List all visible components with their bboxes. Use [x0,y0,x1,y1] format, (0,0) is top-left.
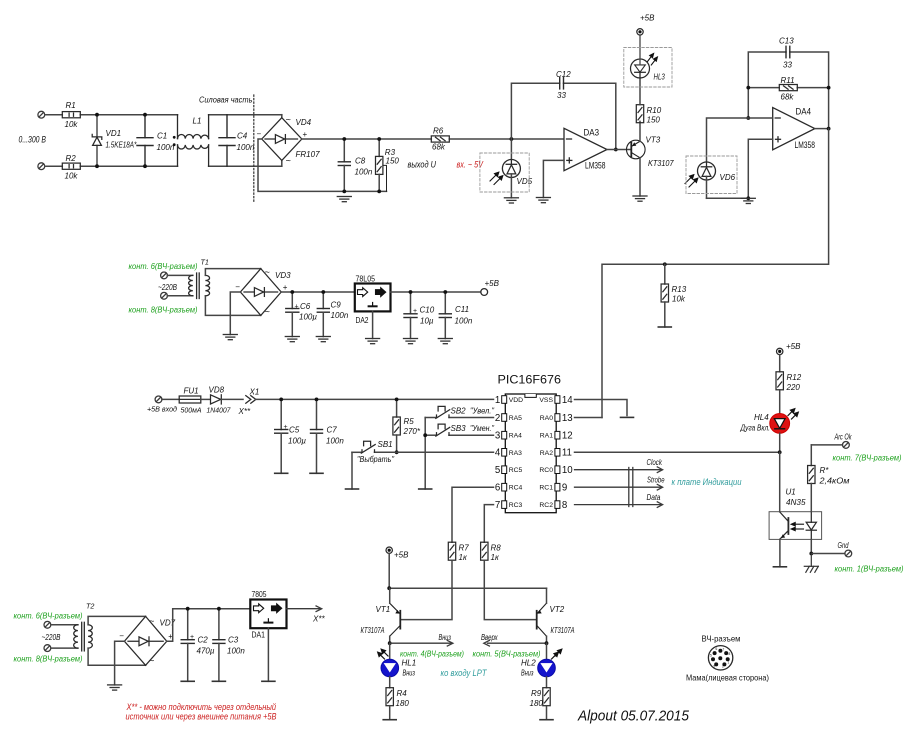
svg-text:Data: Data [647,493,661,502]
svg-text:6: 6 [495,483,500,494]
svg-text:KT3107: KT3107 [648,159,674,168]
ground C11 [438,339,452,344]
svg-text:270*: 270* [403,427,421,436]
wire DA1 ground leg [267,628,269,681]
ground bar C7 [310,472,323,474]
wire pin8 RC2 Data [575,502,663,508]
LED HL3 [631,35,666,105]
svg-text:33: 33 [557,91,566,100]
separator dotted line [253,95,255,203]
svg-text:выход U: выход U [408,160,437,170]
svg-text:R13: R13 [672,285,687,294]
svg-text:100n: 100n [326,437,344,446]
svg-text:R12: R12 [787,373,802,382]
wire VD4 output rail [302,138,564,140]
svg-text:3: 3 [713,665,715,669]
svg-text:источник или через внешнее пит: источник или через внешнее питания +5В [126,712,277,722]
svg-text:HL4: HL4 [754,413,769,422]
supply +5В terminal (HL4) [777,348,783,354]
wire DA2 ground leg [372,311,374,338]
svg-text:9: 9 [562,483,567,494]
svg-text:HL3: HL3 [654,73,666,82]
capacitor C9 [317,292,329,337]
svg-text:68k: 68k [781,93,795,102]
ground bar C3 [212,680,225,682]
wire U1 LED cathode to Gnd [810,539,812,553]
svg-text:Х** - можно подключить через о: Х** - можно подключить через отдельный [126,702,276,712]
svg-text:"Выбрать": "Выбрать" [357,455,395,464]
svg-text:100n: 100n [355,168,373,177]
terminal T2 primary upper [44,621,51,628]
ground bar R13 [658,326,671,328]
svg-text:180: 180 [530,699,544,708]
svg-text:11: 11 [562,448,572,459]
svg-text:C1: C1 [157,132,167,141]
svg-text:150: 150 [386,157,400,166]
capacitor C7 [311,399,323,473]
svg-text:1к: 1к [459,553,468,562]
ground bar DA1 [262,680,275,682]
node junction R11 right [827,86,831,90]
ground bar SB1 [346,488,359,490]
svg-text:L1: L1 [193,117,202,126]
ground bar R9 [540,719,553,721]
svg-text:Вверх: Вверх [481,633,498,642]
wire node to U1 collector [779,452,781,511]
node junction HL4/pin11/U1 [778,450,782,454]
svg-text:+5В: +5В [640,14,655,23]
earth ground U1 [804,554,818,573]
terminal T2 primary lower [44,645,51,652]
node junction C3 [217,607,221,611]
svg-text:C6: C6 [300,302,311,311]
svg-text:13: 13 [562,413,573,424]
ground bar R4 [383,719,396,721]
wire DA4 plus input to ground node [748,139,772,198]
node junction R5 top [395,398,399,402]
svg-text:+: + [283,283,288,292]
svg-text:+: + [284,424,288,431]
svg-text:конт. 6(ВЧ-разъем): конт. 6(ВЧ-разъем) [14,611,83,621]
terminal +5В вход [155,396,162,403]
op-amp DA4 [773,108,815,150]
wire HL4 to node [779,433,781,452]
transformer T2 [51,622,92,651]
capacitor C1 [137,115,153,167]
resistor R2 [62,154,80,181]
svg-text:10k: 10k [65,120,79,129]
svg-text:100n: 100n [455,317,473,326]
svg-text:~220В: ~220В [158,283,178,292]
svg-text:R5: R5 [404,417,415,426]
svg-text:"Увел.": "Увел." [470,407,495,416]
svg-text:Вниз: Вниз [403,669,416,678]
capacitor C11 [439,292,451,339]
svg-text:Alpout 05.07.2015: Alpout 05.07.2015 [577,709,690,725]
svg-text:C9: C9 [331,301,342,310]
op-amp DA3 [564,128,607,170]
svg-text:+5В: +5В [786,342,801,351]
ground bar VSS [621,416,634,418]
wire VDD rail [256,398,494,400]
ground DA3 plus [536,198,550,203]
svg-text:RA2: RA2 [540,450,553,457]
bus marks Clock/Strobe/Data [629,468,633,507]
svg-text:R2: R2 [66,154,77,163]
ground T1 bridge [223,335,237,340]
svg-text:DA2: DA2 [356,315,369,325]
ground bar C5 [275,472,288,474]
svg-text:к плате Индикации: к плате Индикации [672,477,742,487]
IC PIC16F676 [495,374,573,513]
svg-text:Дуга Вкл.: Дуга Вкл. [740,424,770,433]
svg-text:+5В вход: +5В вход [147,405,177,414]
LED HL2 (blue) [521,643,562,677]
svg-text:+: + [413,308,417,315]
node junction R1-VD1 [95,113,99,117]
svg-text:R4: R4 [397,689,408,698]
svg-text:C12: C12 [556,70,571,79]
svg-text:RC2: RC2 [539,502,553,509]
resistor R12 [776,355,802,414]
svg-text:R6: R6 [433,127,444,136]
terminal input upper [38,111,45,118]
svg-text:конт. 7(ВЧ-разъем): конт. 7(ВЧ-разъем) [833,453,902,463]
wire feedback loop DA3 [511,83,615,149]
svg-text:C13: C13 [779,37,794,46]
svg-text:Arc Ok: Arc Ok [834,433,852,442]
fuse FU1 [162,396,201,403]
svg-text:VDD: VDD [509,397,523,404]
svg-text:VD4: VD4 [296,118,312,127]
node junction emitter rail [387,586,391,590]
ground C6 [285,337,299,342]
wire T1 secondary to VD3 [205,269,260,316]
LED HL4 (red) [740,409,799,434]
wire emitter rail [389,553,546,588]
photodiode VD6 [685,162,736,198]
svg-text:VT1: VT1 [376,605,391,614]
button SB2 [436,406,450,418]
svg-text:1: 1 [495,395,500,406]
resistor R11 [748,76,828,102]
resistor R9 [530,677,551,720]
wire VD3 output rail [281,291,355,293]
svg-text:10k: 10k [672,295,686,304]
supply +5В terminal (HL3) [637,29,643,35]
svg-text:−: − [257,130,262,139]
svg-text:2: 2 [722,665,724,669]
node junction VD6/DA4 plus ground [746,196,750,200]
svg-text:Вниз: Вниз [439,633,452,642]
svg-text:12: 12 [562,431,573,442]
wire DA3 plus input to ground [543,160,564,197]
ground C10 [404,339,418,344]
svg-text:U1: U1 [786,488,796,497]
ground C9 [316,337,330,342]
svg-text:VT2: VT2 [550,605,565,614]
svg-text:КТ3107А: КТ3107А [361,626,385,635]
bridge rectifier VD4 FR107 [262,118,302,161]
dashed box VD6 [686,156,737,194]
node junction C10 [409,290,413,294]
ground bar C2 [181,680,194,682]
svg-text:0...300 В: 0...300 В [19,135,47,145]
svg-text:C3: C3 [228,636,239,645]
svg-text:C8: C8 [355,157,366,166]
node junction SB3 column [423,433,427,437]
svg-text:100n: 100n [331,311,349,320]
TVS diode VD1 [92,115,102,167]
svg-text:LM358: LM358 [585,161,606,172]
arrow Вниз [390,640,453,646]
svg-text:470µ: 470µ [197,647,215,656]
terminal Arc Ok [811,433,852,449]
node junction C1 top [143,113,147,117]
svg-text:SB2: SB2 [451,407,467,416]
svg-text:ко входу LPT: ко входу LPT [441,668,488,678]
svg-text:C7: C7 [327,426,338,435]
ground (power section) [337,197,351,202]
svg-text:PIC16F676: PIC16F676 [498,374,562,387]
resistor R4 [386,677,409,720]
svg-text:Clock: Clock [647,458,663,467]
svg-text:R10: R10 [647,106,662,115]
svg-text:+: + [190,634,194,641]
svg-text:DA1: DA1 [252,630,266,640]
node junction C8 bottom [342,190,346,194]
photodiode VD5 [490,139,533,198]
resistor R3 [376,139,400,191]
svg-text:DA3: DA3 [584,128,600,139]
regulator DA1 7805 [250,589,286,640]
svg-text:HL1: HL1 [402,659,417,668]
svg-text:SB1: SB1 [378,440,393,449]
svg-text:Вниз: Вниз [521,669,534,678]
terminal +5В output DA2 [481,289,488,296]
resistor R6 [431,127,449,152]
ground bar SB2/SB3 [419,488,432,490]
svg-text:10µ: 10µ [420,317,434,326]
svg-text:Gnd: Gnd [838,541,849,550]
svg-text:RC1: RC1 [539,485,553,492]
resistor R1 [62,101,80,129]
node junction C1 bottom [143,164,147,168]
svg-text:~: ~ [149,656,154,666]
svg-text:R9: R9 [531,689,542,698]
svg-text:4: 4 [495,448,501,459]
svg-text:−: − [119,632,124,641]
svg-text:8: 8 [729,652,731,656]
svg-text:33: 33 [783,61,792,70]
svg-text:8: 8 [562,500,567,511]
svg-text:+: + [295,304,299,311]
svg-text:+: + [303,130,308,139]
svg-text:DA4: DA4 [796,107,812,118]
transistor VT3 KT3107 [627,121,646,196]
svg-text:RA4: RA4 [509,433,522,440]
wire pin11 RA2 to HL4 node [575,451,780,453]
terminal T1 primary upper [161,272,168,279]
node junction feedback/VD5 [510,137,514,141]
ground bar U1 emitter [773,566,786,568]
svg-text:R7: R7 [459,544,470,553]
svg-text:~: ~ [265,267,270,277]
svg-text:RA0: RA0 [540,415,553,422]
svg-text:C10: C10 [420,306,435,315]
svg-text:Strobe: Strobe [647,476,665,485]
svg-text:+5В: +5В [394,551,409,560]
svg-text:~: ~ [286,115,291,125]
node junction R3 top [377,137,381,141]
svg-text:конт. 6(ВЧ-разъем): конт. 6(ВЧ-разъем) [129,261,198,271]
wire DA4 output long run [602,129,829,418]
svg-text:конт. 1(ВЧ-разъем): конт. 1(ВЧ-разъем) [835,564,904,574]
ground VD5 [504,198,518,203]
LED HL1 (blue) [378,643,416,677]
svg-text:5: 5 [495,465,500,476]
svg-text:78L05: 78L05 [356,274,376,284]
svg-text:100n: 100n [157,143,175,152]
svg-text:150: 150 [647,116,661,125]
svg-text:RC0: RC0 [539,467,553,474]
terminal input lower [38,163,45,170]
node junction DA4 minus [746,116,750,120]
capacitor C8 [338,139,350,191]
svg-text:RC3: RC3 [509,502,523,509]
svg-text:VT3: VT3 [646,136,661,145]
svg-text:конт. 8(ВЧ-разъем): конт. 8(ВЧ-разъем) [129,305,198,315]
node junction R3 bottom [377,190,381,194]
svg-text:6: 6 [716,647,718,651]
wire DA1 output arrow X** [287,606,322,612]
bridge rectifier VD7 [124,616,166,665]
connector ВЧ-разъем face view [686,634,769,683]
svg-text:КТ3107А: КТ3107А [551,626,575,635]
svg-text:HL2: HL2 [521,659,536,668]
node junction C8 top [342,137,346,141]
wire VD4 minus loop to ground rail [258,139,387,191]
capacitor C2 [181,609,194,682]
svg-text:RA3: RA3 [509,450,522,457]
wire lower rail [45,160,282,166]
ground VT3 collector [633,196,647,201]
svg-text:RC5: RC5 [509,467,523,474]
svg-text:5: 5 [710,654,712,658]
button SB1 [361,441,375,453]
regulator DA2 78L05 [355,274,391,326]
wire pin9 RC1 Strobe [575,484,663,490]
resistor R7 [401,487,493,619]
svg-text:VD6: VD6 [720,173,736,182]
wire pin13 RA0 [575,417,603,419]
svg-text:7: 7 [495,500,500,511]
ground DA2 [366,339,380,344]
wire pin4 line [352,452,494,489]
terminal Gnd [811,541,851,557]
capacitor C5 [275,399,288,473]
node junction C2 [186,607,190,611]
capacitor C3 [213,609,225,682]
resistor R* [808,445,850,512]
svg-text:LM358: LM358 [795,140,816,151]
svg-text:С2: С2 [198,636,209,645]
svg-text:~: ~ [286,156,291,166]
svg-text:220: 220 [786,383,801,392]
svg-text:100n: 100n [237,143,255,152]
svg-text:1.5KE18A*: 1.5KE18A* [106,141,138,150]
svg-text:RC4: RC4 [509,485,523,492]
svg-text:7: 7 [723,648,725,652]
wire U1 emitter to ground [779,539,781,566]
svg-text:~: ~ [149,616,154,626]
connector X1 [246,396,256,404]
svg-text:FU1: FU1 [184,387,199,396]
node junction C9 [321,290,325,294]
svg-text:4N35: 4N35 [786,498,806,507]
svg-text:2: 2 [495,413,500,424]
node junction VT1 collector [388,641,392,645]
node junction DA3 output [614,148,618,152]
node junction Gnd [809,552,813,556]
supply +5В terminal (VT stage) [386,547,392,553]
svg-text:C4: C4 [237,132,248,141]
wire DA4 feedback top [748,52,828,129]
svg-text:X1: X1 [249,388,260,397]
svg-text:X**: X** [312,615,325,624]
svg-text:R1: R1 [66,101,76,110]
wire DA3 output to VT3 base [607,149,631,151]
svg-text:VD5: VD5 [517,177,533,186]
svg-text:180: 180 [396,699,410,708]
svg-text:500мА: 500мА [181,406,202,415]
svg-text:конт. 8(ВЧ-разъем): конт. 8(ВЧ-разъем) [14,654,83,664]
node junction R5 bottom [395,450,399,454]
svg-text:VSS: VSS [539,397,553,404]
capacitor C4 [219,115,235,167]
node junction VT2 collector [545,641,549,645]
svg-text:X**: X** [238,407,251,416]
wire VD3 minus to ground [230,292,240,335]
svg-text:R8: R8 [491,544,502,553]
svg-text:10: 10 [562,465,573,476]
wire VD6 bottom to ground node [707,197,749,199]
dashed box VD5 [480,153,529,192]
capacitor C13 [786,46,790,57]
svg-text:R*: R* [820,466,830,475]
svg-text:Силовая часть: Силовая часть [199,96,253,105]
node junction R11 left [746,86,750,90]
svg-text:100µ: 100µ [299,313,317,322]
svg-text:конт. 5(ВЧ-разъем): конт. 5(ВЧ-разъем) [473,649,541,659]
svg-text:1к: 1к [491,553,500,562]
capacitor C10 [404,292,417,339]
resistor R10 [636,105,661,125]
ground T2 bridge [108,685,122,690]
svg-text:68k: 68k [432,143,446,152]
resistor R8 [481,505,536,620]
svg-text:7805: 7805 [252,589,267,599]
wire DA2 output rail [391,291,481,293]
node junction C6 [290,290,294,294]
svg-text:~220В: ~220В [42,633,62,642]
wire VD7 minus to ground [115,641,125,685]
transistor VT1 KT3107A [390,588,401,643]
terminal T1 primary lower [161,292,168,299]
svg-text:1N4007: 1N4007 [207,406,232,415]
node junction DA4 output [827,127,831,131]
wire pin14 VSS to ground [575,400,628,416]
